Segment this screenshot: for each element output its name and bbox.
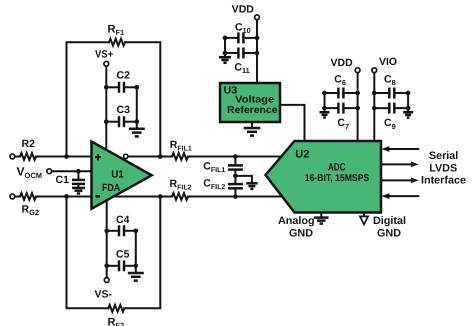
terminal VS- [95,278,113,301]
terminal VS+ [95,49,113,67]
node C10 left [223,36,228,41]
node C11/VDD [255,51,260,56]
node CFIL1 top [233,154,238,159]
svg-text:U1: U1 [111,168,124,180]
resistor R2 [20,138,36,160]
wire VOCM rail [52,170,92,172]
svg-text:VS+: VS+ [95,49,113,61]
svg-text:VDD: VDD [331,57,354,69]
node VS-/C5 [104,263,109,268]
svg-text:RFIL2: RFIL2 [170,178,192,192]
wire bottom feedback loop [67,197,161,309]
node C11 left/ground [223,51,228,56]
node VS+/C2 [104,85,109,90]
node C8 right [406,91,411,96]
ground under C5 [128,266,144,281]
capacitor CFIL1 [203,157,243,184]
ground at CFIL midpoint [235,176,257,189]
ground under C9 [403,108,413,118]
wire C8-C9 right vertical [407,93,409,108]
svg-text:RFIL1: RFIL1 [170,139,192,153]
capacitor C11 [225,48,257,76]
svg-text:VOCM: VOCM [17,165,43,181]
wire RG2 input rail [15,196,92,198]
svg-text:RF1: RF1 [108,24,125,38]
ground under U3 [244,122,261,136]
capacitor C9 [374,103,408,131]
svg-text:RG2: RG2 [22,204,40,218]
wire C4-C5 right vertical [135,231,137,266]
node C5 right/ground [133,263,138,268]
resistor RF2 [108,305,125,326]
node C6/VDD [355,91,360,96]
svg-text:C2: C2 [117,70,131,82]
node CFIL mid [233,174,238,179]
capacitor C6 [325,73,358,98]
svg-text:C11: C11 [234,62,249,76]
capacitor C4 [107,214,136,237]
svg-text:C9: C9 [384,117,396,131]
ground under C11 [219,53,231,63]
svg-text:RF2: RF2 [108,317,125,326]
svg-text:Reference: Reference [227,105,278,116]
svg-text:C5: C5 [116,249,130,261]
resistor RF1 [108,24,125,46]
node C6 left [322,91,327,96]
capacitor C5 [107,249,136,272]
svg-text:FDA: FDA [102,182,121,194]
label Serial LVDS Interface [421,150,466,186]
resistor RG2 [20,193,39,217]
wire U1 top output rail [128,156,281,158]
svg-text:LVDS: LVDS [429,162,457,174]
node C7 left/ground [322,106,327,111]
capacitor C2 [106,70,137,93]
svg-text:Digital: Digital [373,215,406,227]
svg-text:VS-: VS- [95,289,113,301]
node C2 right [134,85,139,90]
wire VS- from FDA [106,200,108,277]
node out- / RF2 [158,194,163,199]
svg-text:U2: U2 [295,149,309,161]
node VS-/C4 [104,228,109,233]
terminal R2 input [10,154,15,159]
svg-text:GND: GND [289,228,313,240]
terminal VIO [372,56,397,73]
wire U3 output to ADC [280,105,305,141]
terminal VOCM [17,165,52,181]
svg-text:VDD: VDD [232,4,255,16]
svg-text:VIO: VIO [379,56,397,68]
IC U2 ADC [266,141,382,213]
svg-text:C1: C1 [56,174,70,186]
node out+ / RF1 [158,154,163,159]
svg-text:ADC: ADC [328,161,346,173]
svg-text:16-BIT, 15MSPS: 16-BIT, 15MSPS [305,173,370,184]
svg-text:R2: R2 [22,138,36,150]
svg-text:C8: C8 [384,73,396,87]
arrow LVDS 1 (into ADC) [382,146,419,152]
node C9/VIO [372,106,377,111]
capacitor C7 [325,103,358,131]
node VOCM/C1 [76,169,81,174]
svg-text:C4: C4 [116,214,130,226]
ground digital GND [360,213,406,240]
resistor RFIL1 [170,139,192,160]
capacitor CFIL2 [203,178,243,197]
svg-text:C6: C6 [334,73,346,87]
capacitor C3 [106,104,137,127]
node C8/VIO [372,91,377,96]
svg-text:Serial: Serial [429,150,458,162]
ground under C1 [72,185,85,194]
IC U3 voltage reference [220,83,280,122]
wire VS+ to FDA [105,66,107,150]
capacitor C1 [56,171,86,186]
wire R2 input rail [15,156,92,158]
node VS+/C3 [104,119,109,124]
arrow LVDS 3 (out) [381,178,419,184]
wire VIO to ADC [373,73,375,141]
node C10/VDD [255,36,260,41]
wire VDD to U3 [256,20,258,83]
node C9 right/ground [406,106,411,111]
wire C2-C3 right vertical [136,87,138,121]
ground analog GND [278,213,329,240]
pin OUT- circle on U1 [124,154,128,158]
node C7/VDD [355,106,360,111]
wire C10-C11 left vertical [224,38,226,53]
node C4 right [133,228,138,233]
terminal RG2 input [10,194,15,199]
svg-text:Voltage: Voltage [235,94,274,105]
resistor RFIL2 [170,178,192,200]
svg-text:GND: GND [377,228,401,240]
wire C6-C7 left vertical [324,93,326,108]
node CFIL2 bottom [233,194,238,199]
terminal VDD middle [232,4,260,20]
svg-text:Analog: Analog [278,215,315,227]
node R2/feedback [64,154,69,159]
terminal VDD right [331,57,361,73]
wire VDD right to ADC [357,73,359,141]
svg-text:Interface: Interface [421,175,466,187]
svg-text:C3: C3 [117,104,131,116]
svg-text:C7: C7 [337,117,349,131]
capacitor C8 [374,73,408,98]
capacitor C10 [225,21,257,43]
node C3 right/ground [134,119,139,124]
wire U1 bottom output rail [113,196,282,198]
svg-text:CFIL1: CFIL1 [203,160,225,174]
svg-text:CFIL2: CFIL2 [203,178,225,192]
wire top feedback loop [67,42,161,156]
arrow LVDS 4 (into ADC) [382,193,419,199]
ground under C3 [129,122,145,137]
op-amp U1 FDA [92,142,152,209]
ground under C7 [320,108,330,118]
arrow LVDS 2 (out) [381,162,419,168]
node RG2/feedback [64,194,69,199]
